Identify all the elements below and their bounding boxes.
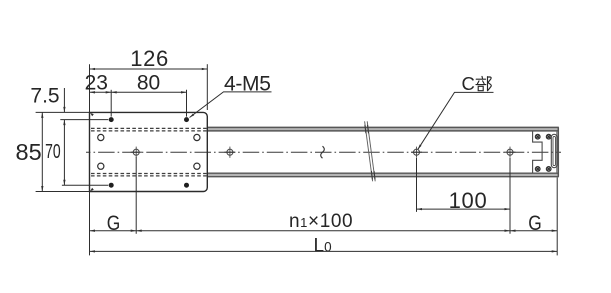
- svg-text:G: G: [107, 212, 121, 235]
- centerline break squiggle: [321, 146, 325, 158]
- plate tapped hole M5 top-right: [184, 117, 189, 122]
- rail body edges solid: [207, 127, 559, 176]
- dimension line 70: [63, 120, 65, 186]
- extension line rail right end: [556, 178, 558, 256]
- dimension line 85: [41, 112, 43, 191]
- end cap screw 1: [535, 134, 551, 171]
- dimension line 23 and 80: [90, 91, 187, 93]
- extension line rail hole 1: [135, 157, 137, 234]
- rail mounting hole 1 under plate: [133, 149, 139, 155]
- rail mounting hole 2: [227, 149, 233, 155]
- plate tapped hole M5 bottom-left: [109, 183, 114, 188]
- arrows n1x100: [136, 230, 142, 232]
- end cap screw crosses: [536, 135, 550, 170]
- svg-text:n1×100: n1×100: [289, 211, 353, 232]
- break line ticks at rail edges: [365, 125, 375, 180]
- end cap outline with notch: [533, 131, 543, 173]
- arrows 126: [90, 68, 96, 70]
- plate tapped hole M5 top-left: [109, 117, 114, 122]
- kanji BU of C part drawn as strokes: [476, 76, 491, 90]
- wire hidden rail edge dashed top: [91, 128, 207, 176]
- extension line hole column 2: [186, 90, 188, 117]
- dimension line L0: [90, 250, 558, 252]
- arrows G left: [90, 230, 96, 232]
- extension line left edge vertical: [89, 64, 91, 112]
- dimension line G left: [90, 230, 137, 232]
- svg-text:100: 100: [449, 188, 488, 213]
- extension line hole column 1: [110, 90, 112, 117]
- end cap slot: [551, 134, 557, 167]
- leader 4-M5: [190, 92, 272, 118]
- extension line plate top to left: [36, 111, 90, 113]
- svg-text:G: G: [528, 212, 542, 235]
- arrows 80: [111, 91, 117, 93]
- plate through holes: [98, 134, 200, 169]
- extension line rail hole 3: [416, 158, 418, 212]
- corner mark arrow bottom-left of plate: [90, 188, 94, 191]
- rail right end: [557, 127, 559, 176]
- centerline: [86, 151, 561, 153]
- dimension line G right: [510, 230, 557, 232]
- dimension line 7.5 upper leg: [63, 88, 65, 112]
- rail body gray bands: [207, 127, 559, 131]
- extension and dimension lines: [36, 64, 558, 255]
- svg-text:85: 85: [16, 139, 42, 165]
- svg-text:4-M5: 4-M5: [224, 72, 271, 95]
- extension line right edge of plate vertical: [206, 64, 208, 110]
- svg-text:23: 23: [85, 72, 108, 95]
- svg-text:C: C: [462, 73, 475, 94]
- arrows 70: [63, 120, 65, 126]
- arrowheads: [41, 68, 557, 253]
- arrows 100: [417, 208, 423, 210]
- arrow 7.5: [63, 107, 65, 113]
- rail mounting hole 3 (C part): [414, 149, 420, 155]
- leader C part: [418, 92, 494, 149]
- arrows L0: [90, 250, 96, 252]
- break lines across rail: [365, 121, 376, 181]
- dimension line 126: [90, 68, 208, 70]
- extension line plate bottom to left: [36, 191, 90, 193]
- dimension line 100: [417, 208, 511, 210]
- rail mounting hole 4: [507, 149, 513, 155]
- arrows G right: [510, 230, 516, 232]
- extension line rail hole 4: [509, 158, 511, 234]
- svg-text:L0: L0: [314, 236, 332, 257]
- svg-text:80: 80: [137, 72, 160, 95]
- plate tapped hole M5 bottom-right: [184, 183, 189, 188]
- svg-text:7.5: 7.5: [30, 85, 59, 108]
- corner mark arrow top-left of plate: [90, 113, 94, 116]
- svg-text:70: 70: [45, 141, 61, 163]
- carriage plate outline: [90, 112, 208, 191]
- arrows 85: [41, 112, 43, 118]
- extension line bottom hole row to left: [62, 184, 108, 186]
- extension line top hole row to left: [60, 119, 108, 121]
- arrows 23: [90, 91, 96, 93]
- dimension line n1x100: [136, 230, 510, 232]
- svg-text:126: 126: [130, 46, 169, 71]
